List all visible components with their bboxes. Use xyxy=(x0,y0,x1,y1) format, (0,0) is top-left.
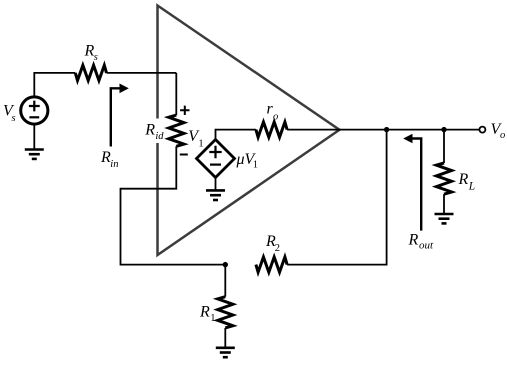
svg-text:out: out xyxy=(419,240,434,252)
svg-text:R: R xyxy=(408,232,419,249)
svg-text:R: R xyxy=(144,122,155,139)
svg-text:L: L xyxy=(468,180,475,192)
node A xyxy=(384,127,389,132)
op-amp U1 xyxy=(144,6,340,256)
resistor Rid xyxy=(144,115,184,146)
svg-text:s: s xyxy=(12,113,16,124)
wire xyxy=(121,146,226,264)
svg-text:1: 1 xyxy=(198,138,203,149)
resistor R1 xyxy=(199,297,233,328)
wire xyxy=(287,129,480,131)
resistor RL xyxy=(436,163,475,194)
label V1 xyxy=(188,128,203,149)
label V1 plus xyxy=(180,106,189,115)
wire xyxy=(224,265,226,297)
svg-text:in: in xyxy=(110,159,118,170)
svg-text:R: R xyxy=(199,304,210,321)
resistor Rs xyxy=(75,43,106,81)
svg-text:o: o xyxy=(273,112,278,123)
ground xyxy=(216,348,235,357)
wire xyxy=(215,178,217,191)
wire xyxy=(287,130,387,265)
label V1 minus xyxy=(180,154,188,156)
wire xyxy=(175,73,177,115)
ground xyxy=(25,124,44,159)
svg-text:o: o xyxy=(500,130,505,141)
svg-text:2: 2 xyxy=(275,243,280,254)
svg-text:s: s xyxy=(94,52,98,63)
node B xyxy=(441,127,446,132)
wire xyxy=(216,130,256,140)
svg-text:1: 1 xyxy=(210,313,215,324)
wire xyxy=(443,130,445,163)
resistor ro xyxy=(256,101,287,138)
svg-text:R: R xyxy=(458,171,469,188)
node C xyxy=(223,262,228,267)
ground xyxy=(435,214,454,223)
ground xyxy=(206,190,225,200)
resistor R2 xyxy=(256,233,287,272)
svg-text:id: id xyxy=(155,131,164,142)
wire xyxy=(443,194,445,214)
arrow Rin xyxy=(100,84,129,171)
arrow Rout xyxy=(403,134,434,252)
wire xyxy=(224,328,226,348)
svg-text:1: 1 xyxy=(253,159,258,170)
terminal Vo xyxy=(479,121,505,141)
wire xyxy=(107,72,177,74)
dependent source mu*V1 xyxy=(197,140,258,178)
wire xyxy=(34,73,75,97)
voltage source Vs xyxy=(3,97,48,124)
